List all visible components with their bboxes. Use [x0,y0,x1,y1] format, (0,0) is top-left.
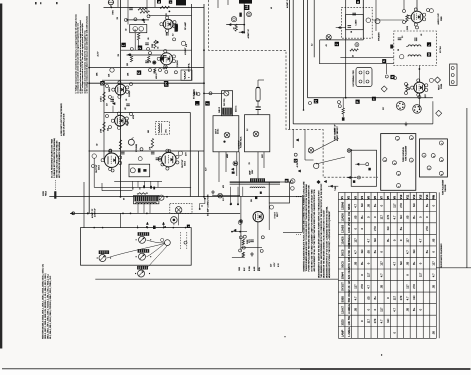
svg-text:B+: B+ [386,238,390,242]
svg-text:LAMP: LAMP [340,329,344,337]
resistor below box [137,33,139,40]
svg-text:117: 117 [366,272,370,277]
wire horizontal y112.4 [104,111,190,113]
svg-text:AND PLACEMENT OF ALL OF THE TU: AND PLACEMENT OF ALL OF THE TUBES THAT A… [313,189,316,272]
antenna symbol [108,0,113,5]
pin circles V9 [403,10,406,13]
svg-text:117: 117 [406,238,410,243]
label V5 output [92,154,96,158]
wire vibrator stem [257,80,259,88]
tube placement box 1 [381,134,416,191]
svg-text:33K 1W: 33K 1W [347,211,351,221]
svg-text:.05: .05 [158,47,160,49]
svg-text:.05: .05 [126,99,128,101]
black square G [100,81,104,85]
drops from y181.3 [132,181,134,187]
tube V8 rectifier [253,212,263,222]
tube placement box 2 [420,139,448,177]
bottom border rule [2,368,300,370]
circle above phase box [138,157,142,161]
arrow on y19.9 [141,19,144,21]
black square I [195,101,199,105]
wire horizontal y213.4 [70,212,240,214]
pin on y151 [140,148,143,151]
small box at 181 [181,70,192,80]
wire into box x120 [120,213,122,227]
wire rect vertical x269 [268,203,270,230]
top marks [169,0,172,3]
black square H [164,81,168,85]
tube V10 rectifier [414,82,425,93]
resistor R4c [154,69,156,74]
volume control [128,139,134,145]
capacitor C3b [145,60,149,62]
diamond left of V10 [381,86,387,92]
dark rect top x240 [239,0,252,4]
wires mid right [292,129,294,148]
wire vertical x198.6 [198,151,200,197]
svg-text:T: T [372,98,376,100]
svg-text:117: 117 [406,284,410,289]
interlock pin 2 [357,176,360,179]
svg-text:35W4: 35W4 [340,272,344,280]
svg-text:12AE6: 12AE6 [126,119,129,126]
cap top mid [129,7,133,9]
power transformer X5 core [250,178,265,182]
svg-text:270: 270 [386,214,390,219]
svg-text:455 KC: 455 KC [156,72,158,79]
pin dark [156,41,158,43]
svg-text:4.7: 4.7 [380,273,384,277]
wire corner x102 [101,183,103,191]
gang link circle [165,240,171,246]
svg-text:1. DC voltage measurements ta: 1. DC voltage measurements taken with va… [86,15,89,93]
pin circles outputs [109,149,112,152]
svg-text:40MF: 40MF [227,154,229,158]
inner box bottom y181.3 [114,180,162,182]
table right label line [438,192,440,338]
svg-text:R-WH: R-WH [249,265,251,271]
svg-text:58-2, 59A-1, 59E-1, 59G-2, 59H: 58-2, 59A-1, 59E-1, 59G-2, 59H-1, 752535… [49,276,52,339]
wire stub x118 [117,0,119,7]
svg-text:~6.3V: ~6.3V [297,162,299,168]
pin circles V2 lower [149,69,152,72]
rect coil 2 [408,55,421,57]
svg-text:2: 2 [138,47,142,49]
dark label right of V1 [175,24,178,32]
divider rule center [95,278,338,280]
svg-text:TRANSFORMERS AND ARE USED TO E: TRANSFORMERS AND ARE USED TO EXCLUDE CIR… [305,183,308,271]
dial cord curve 2 [147,244,165,257]
svg-text:NC: NC [412,296,416,300]
wire vertical left bus [88,4,90,213]
heater wire x343 [342,98,344,108]
black square L [427,42,431,46]
gang link small [161,238,164,241]
heater pins [338,101,341,104]
wire grid bus y151 [89,150,205,152]
svg-text:S: S [382,60,386,62]
junction heater left [303,109,305,111]
wire x204 to trimmer [204,92,224,94]
tube V3 1st audio [115,84,126,95]
circled letter B2 [375,19,380,24]
tube V6 output right [162,152,176,166]
wire x244 top [243,4,245,34]
svg-text:VOLUME: VOLUME [136,143,138,152]
interlock junction [347,149,351,153]
wire vertical x345.7 [345,0,347,98]
svg-text:.05: .05 [406,215,410,219]
capacitor C10 [398,37,402,39]
wire horizontal y7.4 top [104,6,205,8]
wire horizontal B+ bus y83 [89,82,204,84]
pointer line 2 [316,157,345,164]
svg-text:MEASURED WITH VTVM AT THE SOCK: MEASURED WITH VTVM AT THE SOCKET. ▸ REPL… [328,210,331,278]
svg-text:NC: NC [399,261,403,265]
svg-text:47K 10%: 47K 10% [347,256,351,268]
wire y39.9 [320,39,364,41]
pin right in box [184,241,187,244]
svg-text:82K OHM: 82K OHM [347,267,351,280]
svg-text:B+: B+ [360,261,364,265]
wire vertical x303.5 [303,0,305,110]
svg-text:117: 117 [380,215,384,220]
wire vertical x307.5 top [307,0,309,98]
svg-text:.05: .05 [148,38,150,41]
svg-text:.05: .05 [353,215,357,219]
svg-text:5: 5 [411,160,413,161]
svg-text:470: 470 [223,185,225,188]
black square I2 [205,101,209,105]
svg-text:P: P [356,101,360,103]
resistor R8b [151,138,153,148]
pin y44.6 double [355,43,359,47]
svg-text:117: 117 [380,261,384,266]
pins near diamond [385,75,388,78]
wire vertical x319.7 [319,40,321,64]
black square C [137,70,141,74]
svg-text:12AE6: 12AE6 [340,224,344,233]
pointer line to table [328,185,338,187]
circled B in box [400,55,404,59]
svg-text:1.5: 1.5 [402,36,404,38]
svg-text:J: J [335,43,339,45]
resistor R1 top [160,6,170,8]
capacitor C3 [163,55,167,57]
svg-text:2: 2 [189,77,191,78]
svg-text:FIELD: FIELD [45,190,47,196]
svg-text:V14: V14 [426,194,429,199]
svg-text:V10: V10 [400,194,403,199]
svg-text:117: 117 [353,238,357,243]
pin circles V3 [106,85,109,88]
svg-text:4.7: 4.7 [366,284,370,288]
wire y187.4 [94,186,191,188]
svg-text:A PART OF: A PART OF [247,28,250,38]
svg-text:117: 117 [393,203,397,208]
wires under X2 [137,204,139,214]
svg-text:1 MEG: 1 MEG [101,96,103,102]
svg-text:A PART OF: A PART OF [286,0,289,8]
svg-text:.01: .01 [150,61,152,63]
junction heater [345,97,347,99]
svg-text:455 KC: 455 KC [236,105,238,112]
svg-text:50C5: 50C5 [340,249,344,256]
interlock box [351,150,376,186]
wire v from box [138,40,140,46]
svg-text:25.7V: 25.7V [98,51,100,57]
speck marks bottom [381,354,382,355]
svg-text:3: 3 [441,143,443,144]
cap on V5 grid [121,151,125,153]
pin circles V8 [239,220,242,223]
dark sq in box left [390,45,393,49]
svg-text:270: 270 [412,284,416,289]
leader dots from notes [296,196,302,198]
svg-text:50C5: 50C5 [340,261,344,268]
dashed rectifier box [394,31,437,66]
resistor near 236 [235,24,237,31]
pilot lamp left [224,132,230,138]
box top edge y15.7 [149,15,192,17]
wires above box [137,225,139,227]
capacitor C7 [156,157,160,159]
black square heater K2 [382,59,386,63]
wires right section [386,64,388,74]
capacitor C4 [110,99,114,101]
circle R [291,179,295,183]
svg-text:NC: NC [373,238,377,242]
dashed coil box [155,122,169,135]
pin V8 left dark [240,220,242,222]
svg-text:50: 50 [353,55,355,57]
label V10 [429,78,433,82]
svg-text:.02: .02 [125,108,127,111]
circled 12AX7 marker [181,41,185,45]
arrow and pin on y213.4 [71,212,74,214]
svg-text:470K OHM: 470K OHM [347,242,351,256]
svg-text:MEASUREMENTS TAKEN IN THE RECE: MEASUREMENTS TAKEN IN THE RECEIVER CHASS… [318,190,321,278]
svg-text:.05: .05 [231,203,233,205]
svg-text:B+: B+ [412,215,416,219]
svg-text:117: 117 [380,307,384,312]
svg-text:50B5: 50B5 [340,296,344,303]
wire jack down [178,213,180,225]
black square M2 [427,52,431,56]
tuning coil A1 [138,232,150,236]
wire vertical x94 short [93,158,95,187]
svg-text:117: 117 [366,319,370,324]
wire stub V9 up [416,0,418,11]
svg-text:J: J [206,103,210,105]
junction x204 dots [203,49,205,51]
svg-text:2.2K 1W: 2.2K 1W [347,280,351,291]
svg-text:B+: B+ [399,226,403,230]
wire x113 [112,96,114,104]
svg-text:4.7: 4.7 [393,308,397,312]
svg-text:35W4: 35W4 [441,83,443,89]
svg-text:B+: B+ [412,261,416,265]
pin circles V10 [405,83,408,86]
resistor R5 [103,92,105,102]
interlock dark marks [368,168,370,171]
black square heater right [356,100,360,104]
svg-text:50C5: 50C5 [98,164,100,170]
svg-text:11: 11 [245,5,249,9]
svg-text:270: 270 [425,226,429,231]
svg-text:LM TERMINAL VIEW: LM TERMINAL VIEW [352,70,355,86]
arrow junction V3 [113,102,116,104]
phone jack circle [171,217,178,224]
svg-text:EXT AMP CONNECTIONS: EXT AMP CONNECTIONS [207,194,210,216]
heater resistor [342,108,344,114]
svg-text:4.7: 4.7 [393,261,397,265]
cap in box [352,12,356,14]
table tube name column [340,201,435,337]
black square N [390,75,394,79]
svg-text:THIS READING WILL VARY DEPENDI: THIS READING WILL VARY DEPENDING UPON TH… [320,183,323,278]
resistor R4a [130,56,132,62]
wires below IF boxes [236,152,238,176]
tube chart table grid [338,192,436,338]
right edge terminal box [450,64,457,85]
gnd under heater [405,122,407,124]
svg-text:5Y3GT: 5Y3GT [340,282,344,291]
svg-text:NC: NC [386,226,390,230]
svg-text:3.3MEG: 3.3MEG [347,304,351,314]
svg-text:1ST AF B+: 1ST AF B+ [188,62,191,72]
black square J [335,42,339,46]
dark marks under X5 [255,197,257,200]
svg-text:4.7: 4.7 [353,204,357,208]
svg-text:.05: .05 [421,34,423,36]
svg-text:1MEG: 1MEG [109,87,111,92]
svg-text:45: 45 [271,7,273,9]
svg-text:4.7: 4.7 [393,215,397,219]
pilot lamp right [253,131,259,137]
wire vertical x314.2 [313,0,315,57]
wire vertical x84 [83,182,85,228]
wire L x302 [301,195,303,232]
black square 11 [244,5,249,10]
placement circles box1 [395,136,399,140]
svg-text:OSC COIL: OSC COIL [224,98,226,106]
wire stub x128 [127,0,129,25]
bus bar y182 [230,181,280,183]
electrolytic mark [239,13,241,17]
resistor R6 [103,122,105,132]
dark pin left of V2 [161,57,164,60]
svg-text:.05: .05 [353,261,357,265]
svg-text:B+: B+ [373,250,377,254]
svg-text:7: 7 [399,186,401,187]
plug circle 2 [231,17,236,22]
svg-text:12AD6: 12AD6 [340,213,344,222]
trimmer circle V7 [159,195,164,200]
black square K [356,0,360,4]
svg-text:1.2: 1.2 [312,44,314,46]
svg-text:.05: .05 [366,250,370,254]
svg-text:AUDIO OUT: AUDIO OUT [437,13,440,25]
svg-text:MEASURED FROM PIN 3 OF V10 SOC: MEASURED FROM PIN 3 OF V10 SOCKET. ◆ REA… [325,206,328,278]
capacitor C2 [145,42,149,44]
pin circles ext amp [238,220,242,224]
svg-text:.05: .05 [366,204,370,208]
tuning coil A4 [137,266,148,270]
right border line [466,108,468,268]
placement circles box2 [422,153,426,157]
top-left tiny marks [35,2,37,4]
svg-text:100K 2W: 100K 2W [347,221,351,233]
diode circle [233,161,238,166]
svg-text:30: 30 [398,49,400,51]
svg-text:R: R [285,180,289,182]
junction y213 dots [122,213,124,215]
svg-text:.02: .02 [126,29,128,31]
svg-text:2ND IF: 2ND IF [219,106,221,113]
svg-text:455KC: 455KC [218,128,220,134]
svg-text:117: 117 [353,284,357,289]
svg-text:NOT SHOWN ON SCHEMATIC DIAGRAM: NOT SHOWN ON SCHEMATIC DIAGRAM [58,142,61,178]
svg-text:.05: .05 [366,296,370,300]
svg-text:VALUE OR APPLICATION: VALUE OR APPLICATION [63,113,66,136]
wire y63.6 [319,63,394,65]
rect section box [269,182,289,203]
IF transformer T2 can [222,91,233,116]
pin circle heater left [309,102,312,105]
resistor left of V10 [406,84,408,91]
svg-text:270: 270 [360,284,364,289]
junction y32 [243,31,245,33]
wire vertical x293 [292,0,294,124]
svg-text:NO TAG: NO TAG [439,46,442,53]
svg-text:TUBE: TUBE [335,185,337,191]
arrow at diode [231,168,234,170]
svg-text:RECT: RECT [438,84,440,90]
tube V4 audio driver [115,115,126,126]
output trans inner box [346,14,364,29]
svg-text:POWER REPLACEMENT PARTS AND VA: POWER REPLACEMENT PARTS AND VALUES MAY N… [308,184,311,271]
tube V2 converter [161,53,173,65]
second bus y184 [230,183,280,185]
resistor R7v [119,140,121,150]
pin circle external [197,93,200,96]
wire heater box top y97.7 [308,97,433,99]
coil in dashed box [158,123,159,133]
svg-text:V12: V12 [413,194,416,199]
cap on V6 grid [151,151,155,153]
svg-text:A PART OF: A PART OF [91,208,94,218]
capacitor C5 [126,103,130,105]
pins mid bottom [243,235,246,238]
black square on heater line [372,97,376,101]
svg-text:2: 2 [433,156,435,157]
resistor left of V9 [406,15,408,22]
pin circle grid row [124,18,127,21]
svg-text:B+: B+ [373,203,377,207]
svg-text:A-BR: A-BR [253,266,256,271]
svg-text:K: K [356,1,360,3]
dark dot left box [223,141,225,143]
svg-text:117: 117 [419,272,423,277]
wire y24.6 [226,24,244,26]
svg-text:Q: Q [294,160,298,162]
tube V11 small [308,148,313,153]
wire audio column x104 [103,83,105,160]
pin circle rect box [290,181,293,184]
ground rect [251,252,253,254]
